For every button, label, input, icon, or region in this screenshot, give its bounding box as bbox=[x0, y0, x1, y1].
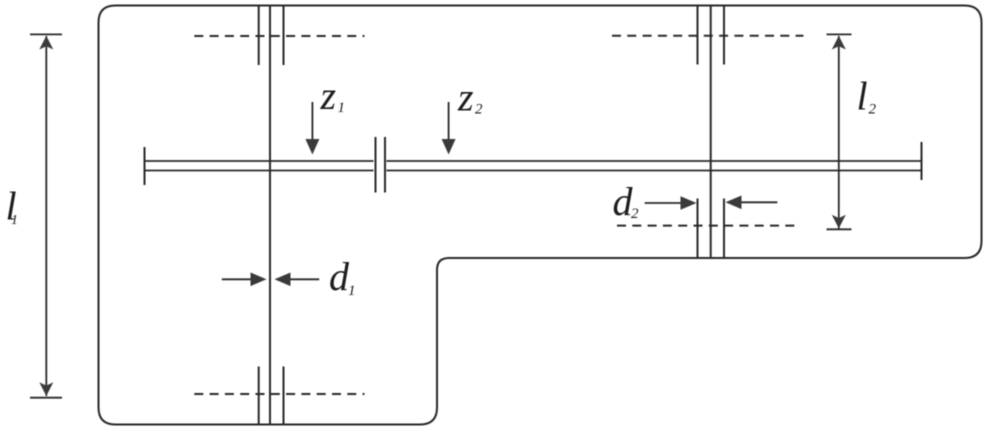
svg-text:1: 1 bbox=[11, 213, 18, 228]
svg-text:d: d bbox=[329, 254, 350, 299]
svg-text:1: 1 bbox=[338, 100, 346, 116]
svg-text:2: 2 bbox=[475, 102, 483, 118]
svg-text:2: 2 bbox=[869, 101, 877, 117]
svg-text:z: z bbox=[320, 73, 337, 118]
svg-text:1: 1 bbox=[348, 283, 356, 299]
svg-text:2: 2 bbox=[631, 206, 639, 222]
svg-text:l: l bbox=[857, 74, 868, 119]
svg-text:z: z bbox=[457, 75, 474, 120]
